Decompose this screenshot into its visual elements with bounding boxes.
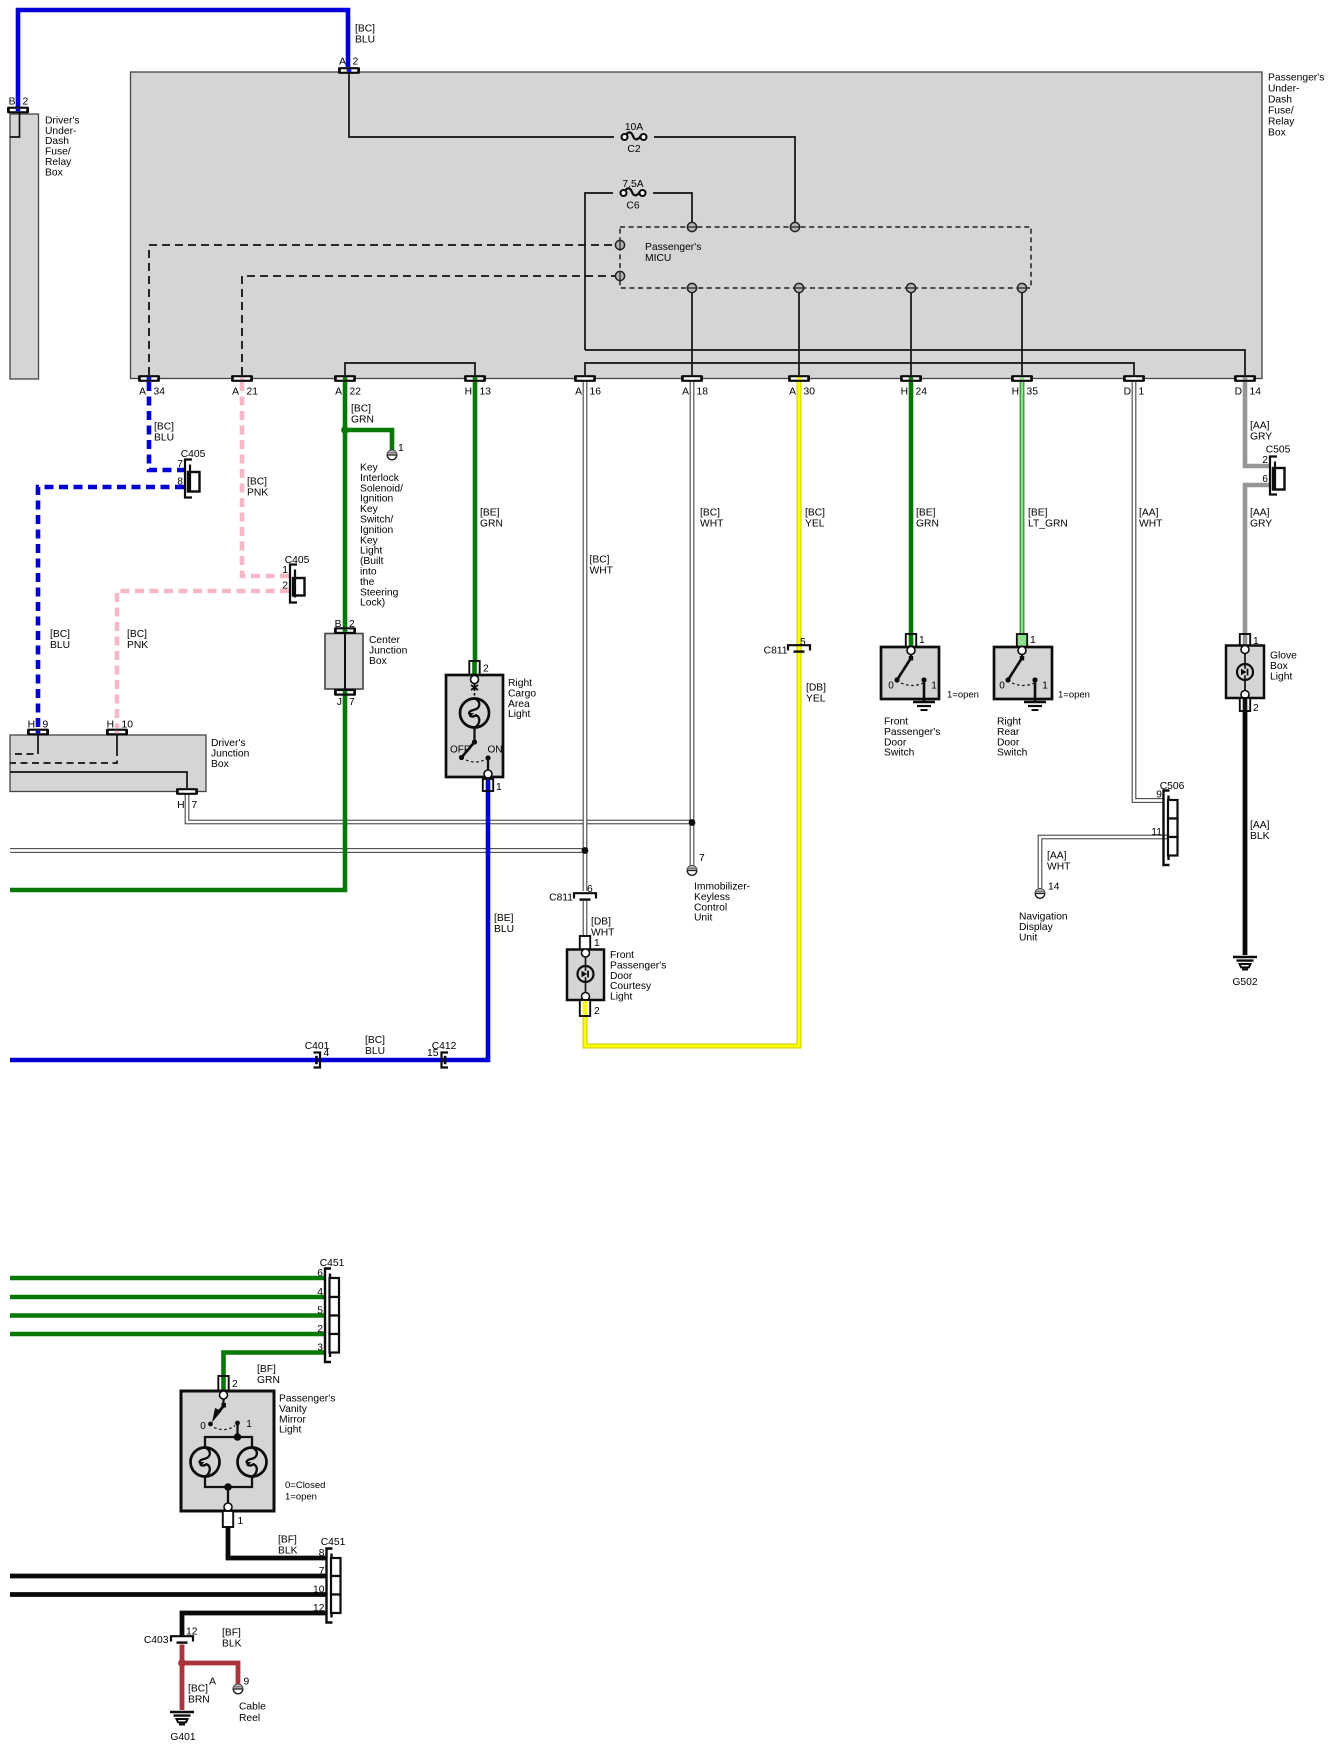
svg-text:Light: Light [360,546,382,557]
svg-text:Ignition: Ignition [360,494,393,505]
bus B wire A16 to D1 [585,363,1134,375]
svg-text:Front: Front [884,717,908,728]
Glove Box Light box [1226,646,1264,699]
svg-text:Center: Center [369,635,400,646]
black wire C451 pin 7 [10,1574,327,1579]
svg-text:BRN: BRN [188,1695,210,1706]
svg-text:Right: Right [997,717,1021,728]
green wire C451 pin 5 [10,1313,325,1318]
svg-text:Front: Front [610,950,634,961]
svg-text:30: 30 [804,387,816,398]
bus wire A22 to H13 [345,363,475,375]
green wire J7 to left edge [10,690,345,890]
black wire C451 pin 10 [10,1592,327,1597]
svg-text:Dash: Dash [1268,95,1292,106]
blue wire B2 to A2 [18,10,348,107]
right rear door switch connector 1 [1017,634,1027,647]
cargo bulb filament top [471,685,478,690]
svg-text:14: 14 [1048,882,1060,893]
black wire glove box light to G502 [1243,710,1248,955]
svg-text:[BC]: [BC] [127,629,147,640]
svg-text:1: 1 [931,681,937,692]
white wire A16 vertical [583,382,588,891]
cable reel terminal A 9 [233,1684,243,1694]
svg-text:1: 1 [238,1516,244,1527]
svg-text:into: into [360,567,377,578]
svg-text:H: H [901,387,908,398]
wire MICU to A30 [798,292,800,375]
vanity switch [222,1399,224,1405]
bus A wire to D14 [585,350,1245,375]
svg-text:Passenger's: Passenger's [1268,73,1324,84]
svg-text:13: 13 [480,387,492,398]
svg-text:C405: C405 [181,449,206,460]
svg-text:Relay: Relay [1268,117,1295,128]
cargo switch [472,739,477,744]
svg-text:BLK: BLK [1250,831,1270,842]
svg-text:WHT: WHT [1139,519,1163,530]
svg-text:Box: Box [211,759,230,770]
svg-text:[BC]: [BC] [590,555,610,566]
svg-text:Key: Key [360,504,379,515]
wire MICU to H24 [910,292,912,375]
svg-text:C403: C403 [144,1635,169,1646]
svg-text:22: 22 [350,387,362,398]
connector D 14 [1234,375,1256,382]
white wire D1 to C506 pin 9 [1134,382,1163,801]
connector C811 pin 6 [574,892,596,898]
ground G502 [1233,956,1257,959]
MICU pin bottom A18 [687,283,696,292]
Driver's Under-Dash Fuse/Relay Box [10,114,39,379]
svg-text:11: 11 [1151,827,1162,838]
svg-text:Door: Door [997,737,1020,748]
vanity light connector 2 [218,1376,228,1391]
brown wire C403 to G401 [180,1645,185,1711]
svg-text:Light: Light [1270,671,1292,682]
svg-text:Ignition: Ignition [360,525,393,536]
svg-text:Junction: Junction [211,748,250,759]
svg-text:9: 9 [1156,790,1162,801]
green wire C451 pin 3 to vanity light [224,1353,326,1378]
svg-text:Vanity: Vanity [279,1404,308,1415]
svg-text:Switch: Switch [997,748,1028,759]
svg-text:H: H [1012,387,1019,398]
svg-text:Driver's: Driver's [211,738,246,749]
svg-text:35: 35 [1027,387,1039,398]
svg-text:Unit: Unit [1019,932,1037,943]
dashed wire H9 inside junction box [37,735,39,747]
svg-text:A: A [232,387,239,398]
svg-text:1: 1 [1030,635,1036,646]
cargo light connector 1 [483,779,493,791]
svg-text:A: A [335,387,342,398]
svg-text:A: A [209,1677,216,1688]
svg-text:B: B [9,97,16,108]
pink dashed wire C405 to H10 [117,591,289,728]
svg-text:PNK: PNK [127,640,148,651]
svg-text:Cable: Cable [239,1702,266,1713]
svg-text:2: 2 [594,1006,600,1017]
thin wire inside center junction box [344,634,346,690]
vanity bulbs parallel circuit [205,1437,252,1449]
svg-text:WHT: WHT [700,519,724,530]
svg-text:7: 7 [319,1566,325,1577]
dashed wire H10 inside junction box [116,735,118,749]
connector B 2 driver box [7,107,29,114]
gray wire C505 to glove box light [1245,485,1269,635]
junction dot A16 [582,847,589,854]
svg-text:Box: Box [369,656,388,667]
svg-text:Courtesy: Courtesy [610,981,652,992]
svg-text:[BC]: [BC] [355,24,375,35]
svg-text:C451: C451 [320,1258,345,1269]
courtesy light connector 2 [580,1000,590,1016]
blue wire cargo light to left edge [10,790,488,1060]
svg-text:2: 2 [353,57,359,68]
green wire branch to key interlock [345,430,392,450]
svg-text:1=open: 1=open [947,690,979,701]
svg-text:Rear: Rear [997,727,1020,738]
svg-text:1: 1 [246,1419,252,1430]
svg-text:[BE]: [BE] [1028,508,1048,519]
MICU pin bottom H24 [906,283,915,292]
blue dashed wire C405 to H9 [38,487,184,728]
svg-text:Glove: Glove [1270,651,1297,662]
svg-text:C2: C2 [627,144,640,155]
svg-text:G502: G502 [1232,977,1257,988]
fuse C6 7.5A [624,188,640,195]
svg-text:2: 2 [282,581,288,592]
svg-text:0: 0 [888,681,894,692]
svg-text:15: 15 [427,1048,439,1059]
svg-text:5: 5 [317,1306,323,1317]
svg-text:[AA]: [AA] [1047,851,1067,862]
svg-text:1=open: 1=open [1058,690,1090,701]
svg-text:[BC]: [BC] [700,508,720,519]
svg-text:C506: C506 [1160,781,1185,792]
svg-text:Passenger's: Passenger's [884,727,940,738]
connector C401 pin 4 [314,1053,321,1068]
immobilizer terminal 7 [687,866,697,876]
svg-text:A: A [339,57,346,68]
svg-text:24: 24 [916,387,928,398]
svg-text:[BE]: [BE] [916,508,936,519]
svg-text:Unit: Unit [694,913,712,924]
svg-text:Junction: Junction [369,645,408,656]
svg-text:6: 6 [317,1268,323,1279]
svg-text:YEL: YEL [805,519,825,530]
svg-text:Box: Box [45,167,64,178]
svg-text:2: 2 [317,1324,323,1335]
svg-text:GRN: GRN [480,519,503,530]
connector H 10 [106,729,128,736]
svg-text:[BC]: [BC] [351,404,371,415]
svg-text:2: 2 [1253,703,1259,714]
svg-text:Key: Key [360,463,379,474]
svg-text:8: 8 [319,1548,325,1559]
svg-text:WHT: WHT [591,928,615,939]
svg-text:YEL: YEL [806,694,826,705]
Right Cargo Area Light box [446,675,503,777]
green wire H24 to front passenger door switch [909,382,914,634]
Passenger's Under-Dash Fuse/Relay Box [131,72,1263,379]
gray wire D14 to C505 [1245,382,1269,466]
connector H 24 [900,375,922,382]
ground G401 [170,1711,194,1714]
svg-text:18: 18 [697,387,709,398]
svg-text:10: 10 [122,720,134,731]
wire fuse C6 right to MICU [653,193,692,222]
connector C405 pins 1/2 [293,578,305,596]
svg-text:MICU: MICU [645,253,671,264]
Passenger's MICU dashed box [620,227,1031,288]
connector A 2 [338,67,360,74]
connector C412 pin 15 [442,1053,449,1068]
svg-text:5: 5 [800,637,806,648]
svg-text:1: 1 [282,565,288,576]
svg-text:Area: Area [508,699,530,710]
svg-text:Cargo: Cargo [508,688,536,699]
svg-text:A: A [789,387,796,398]
svg-text:B: B [335,619,342,630]
svg-text:GRN: GRN [351,415,374,426]
svg-text:Under-: Under- [1268,84,1299,95]
svg-text:7: 7 [177,459,183,470]
courtesy light connector 1 [580,936,590,950]
svg-text:8: 8 [177,477,183,488]
dashed wire A21 to MICU [242,276,615,375]
svg-text:[BC]: [BC] [50,629,70,640]
connector A 16 [574,375,596,382]
white wire A18 vertical to immobilizer [690,382,695,865]
svg-text:BLK: BLK [222,1639,242,1650]
svg-text:BLU: BLU [365,1046,385,1057]
key interlock terminal 1 [387,450,397,460]
svg-text:12: 12 [186,1627,198,1638]
connector A 30 [788,375,810,382]
svg-text:7: 7 [699,853,705,864]
svg-text:4: 4 [317,1287,323,1298]
svg-text:A: A [575,387,582,398]
svg-text:LT_GRN: LT_GRN [1028,519,1068,530]
svg-text:[BF]: [BF] [222,1628,241,1639]
svg-text:Door: Door [610,971,633,982]
svg-text:C405: C405 [285,555,310,566]
black wire vanity pin1 to C451 pin 8 [228,1527,327,1558]
green wire C451 pin 4 [10,1295,325,1300]
svg-text:[AA]: [AA] [1250,421,1270,432]
junction dot green [341,426,349,434]
connector H 7 [176,788,198,795]
junction dot A18/H7 [689,819,696,826]
MICU pin bottom H35 [1017,283,1026,292]
svg-text:4: 4 [324,1048,330,1059]
svg-text:Immobilizer-: Immobilizer- [694,882,750,893]
white wire C506 pin 11 to navigation unit [1040,837,1168,888]
connector H 9 [27,729,49,736]
svg-text:Box: Box [1270,661,1289,672]
connector A 34 [138,375,160,382]
green wire H13 to cargo light [473,382,478,662]
svg-text:Passenger's: Passenger's [279,1394,335,1405]
svg-text:H: H [177,800,184,811]
svg-text:1: 1 [594,938,600,949]
svg-text:2: 2 [1262,455,1268,466]
svg-text:BLU: BLU [154,433,174,444]
svg-text:[BF]: [BF] [278,1535,297,1546]
Center Junction Box [325,634,363,690]
connector A 18 [681,375,703,382]
svg-text:Passenger's: Passenger's [645,242,701,253]
svg-text:Light: Light [610,992,632,1003]
svg-text:Door: Door [884,737,907,748]
Right Rear Door Switch box [994,647,1052,699]
svg-text:7.5A: 7.5A [622,179,643,190]
svg-text:Reel: Reel [239,1713,260,1724]
cargo bulb [460,699,489,728]
svg-text:C505: C505 [1266,445,1291,456]
svg-text:C811: C811 [549,893,573,904]
wire H7 inside junction box [10,772,187,788]
Front Passenger Door Courtesy Light box [567,950,604,1001]
svg-text:OFF: OFF [450,745,470,756]
svg-text:16: 16 [590,387,602,398]
svg-text:14: 14 [1250,387,1262,398]
svg-text:Key: Key [360,535,379,546]
connector C403 pin 12 [171,1635,193,1641]
svg-text:WHT: WHT [590,566,614,577]
svg-text:7: 7 [192,800,198,811]
glove box light connector 2 [1240,698,1250,711]
green wire C451 pin 2 [10,1332,325,1337]
connector C505 pins 2/6 [1273,468,1285,490]
svg-text:A: A [682,387,689,398]
white wire courtesy light pin1 [583,901,588,936]
yellow wire A30 to courtesy light pin 2 [585,382,799,1046]
svg-text:3: 3 [317,1343,323,1354]
connector A 22 [334,375,356,382]
svg-text:Light: Light [508,709,530,720]
svg-text:GRN: GRN [257,1375,280,1386]
svg-text:H: H [465,387,472,398]
connector D 1 [1123,375,1145,382]
svg-text:Fuse/: Fuse/ [45,147,71,158]
wire MICU to A18 [691,292,693,375]
svg-text:Light: Light [279,1425,301,1436]
svg-text:Mirror: Mirror [279,1414,306,1425]
wire fuse C6 left to bus A [585,193,613,350]
svg-text:PNK: PNK [247,488,268,499]
svg-text:2: 2 [232,1379,238,1390]
Driver's Junction Box [10,735,206,792]
svg-text:[AA]: [AA] [1250,820,1270,831]
svg-text:C6: C6 [626,201,639,212]
svg-text:Keyless: Keyless [694,892,730,903]
svg-text:J: J [337,697,342,708]
svg-text:10: 10 [313,1585,325,1596]
navigation terminal 14 [1035,889,1045,899]
front passenger door switch connector 1 [906,634,916,647]
svg-text:7: 7 [349,697,355,708]
svg-text:21: 21 [247,387,259,398]
svg-text:the: the [360,577,375,588]
MICU pin top C6 [687,222,696,231]
svg-text:[AA]: [AA] [1139,508,1159,519]
vanity light connector 1 [223,1511,233,1527]
svg-text:9: 9 [43,720,49,731]
svg-text:[AA]: [AA] [1250,508,1270,519]
svg-text:9: 9 [244,1677,250,1688]
svg-text:A: A [139,387,146,398]
MICU pin bottom A30 [794,283,803,292]
svg-text:GRY: GRY [1250,432,1272,443]
blue dashed wire A34 to C405 [149,382,184,470]
wire A2 to fuse C2 to MICU [349,70,614,137]
svg-text:BLU: BLU [50,640,70,651]
svg-text:Dash: Dash [45,136,69,147]
svg-text:[BC]: [BC] [188,1684,208,1695]
cargo light connector 2 [469,661,479,675]
wire B2 inside driver box [10,110,20,137]
green wire C451 pin 6 [10,1276,325,1281]
svg-text:[BC]: [BC] [247,477,267,488]
svg-text:6: 6 [1262,474,1268,485]
svg-text:2: 2 [349,619,355,630]
svg-text:G401: G401 [170,1732,195,1743]
connector J 7 [334,689,356,696]
Front Passenger Door Switch box [881,647,939,699]
fuse C2 10A [625,132,641,139]
svg-text:6: 6 [587,884,593,895]
svg-text:1: 1 [398,443,404,454]
svg-text:BLU: BLU [494,924,514,935]
svg-text:[BF]: [BF] [257,1364,276,1375]
svg-text:Steering: Steering [360,587,399,598]
svg-text:Switch/: Switch/ [360,515,393,526]
svg-text:[BC]: [BC] [365,1035,385,1046]
svg-text:Display: Display [1019,922,1054,933]
svg-text:Solenoid/: Solenoid/ [360,483,403,494]
svg-text:[DB]: [DB] [806,683,826,694]
svg-text:1=open: 1=open [285,1492,317,1503]
svg-text:2: 2 [23,97,29,108]
MICU pin left A21 [615,271,624,280]
wire MICU to H35 [1021,292,1023,375]
pink dashed wire A21 to C405 [242,382,289,576]
svg-text:GRN: GRN [916,519,939,530]
svg-text:GRY: GRY [1250,519,1272,530]
black wire C451 pin 12 to C403 [182,1613,327,1636]
svg-text:12: 12 [313,1603,325,1614]
svg-text:Under-: Under- [45,126,76,137]
svg-text:10A: 10A [625,122,643,133]
svg-text:ON: ON [488,745,503,756]
svg-text:BLU: BLU [355,35,375,46]
svg-text:Passenger's: Passenger's [610,960,666,971]
connector C405 pins 7/8 [188,472,200,492]
MICU pin top C2 [790,222,799,231]
green wire A22 to center junction box [343,382,348,629]
glove box light connector 1 [1240,634,1250,648]
svg-text:[BC]: [BC] [154,422,174,433]
svg-text:34: 34 [154,387,166,398]
connector C451 pins 6/4/5/2/3 [325,1269,331,1363]
svg-text:[BE]: [BE] [494,913,514,924]
svg-text:Navigation: Navigation [1019,912,1068,923]
svg-text:D: D [1124,387,1131,398]
connector C451 pins 8/7/10/12 [327,1549,333,1623]
